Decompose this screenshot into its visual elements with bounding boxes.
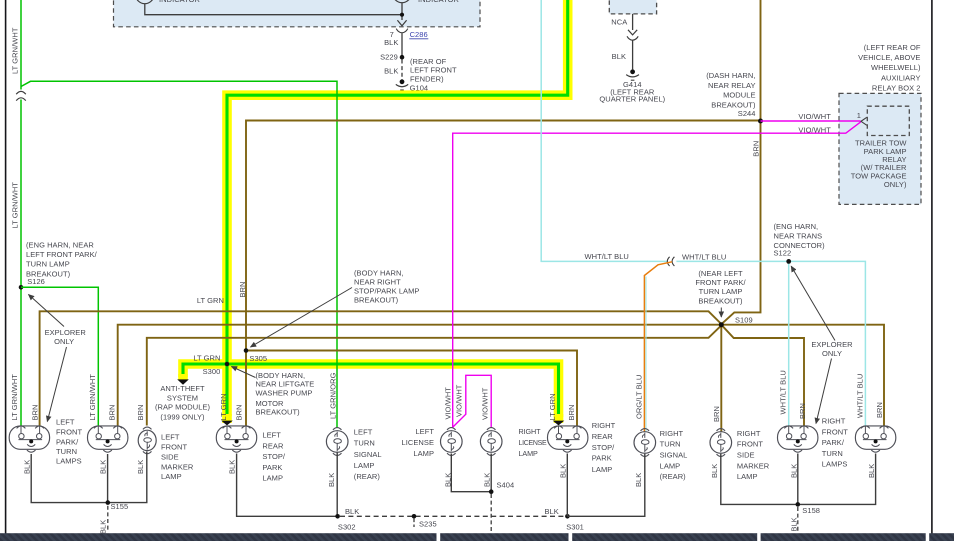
svg-text:BRN: BRN (712, 406, 721, 422)
svg-text:BLK: BLK (136, 460, 145, 474)
splice S301 (565, 514, 584, 531)
svg-text:S109: S109 (735, 315, 753, 324)
wire BLK S155 stub (dashed) (107, 506, 109, 532)
svg-text:WHT/LT BLU: WHT/LT BLU (856, 374, 865, 418)
wire from NCA box (632, 14, 634, 30)
svg-text:EXPLORER: EXPLORER (45, 328, 87, 337)
wire break symbol on WHT/LT BLU (667, 257, 674, 266)
svg-text:LT GRN/WHT: LT GRN/WHT (10, 374, 19, 421)
junction in cluster (400, 13, 404, 17)
svg-text:(LEFT REAR OF: (LEFT REAR OF (864, 43, 921, 52)
splice S305 (244, 348, 267, 363)
svg-text:LAMP: LAMP (519, 449, 538, 458)
svg-text:RIGHT: RIGHT (660, 429, 684, 438)
wire BLK right front lamps to S158 (721, 454, 876, 505)
svg-text:LEFT: LEFT (161, 433, 180, 442)
svg-text:BRN: BRN (238, 282, 247, 298)
svg-text:BLK: BLK (790, 464, 799, 478)
svg-text:VIO/WHT: VIO/WHT (443, 387, 452, 420)
svg-text:SIGNAL: SIGNAL (354, 450, 382, 459)
wire LT GRN/WHT branch to 2nd front park lamp (21, 287, 98, 425)
svg-text:BRN: BRN (752, 141, 761, 157)
lamp left front park/turn 1 (9, 426, 49, 452)
svg-text:(DASH HARN,: (DASH HARN, (706, 71, 755, 80)
splice S155 (106, 500, 129, 511)
svg-text:S158: S158 (802, 506, 820, 515)
svg-text:LAMP: LAMP (660, 461, 681, 470)
svg-text:S300: S300 (203, 367, 221, 376)
svg-text:ORG/LT BLU: ORG/LT BLU (635, 375, 644, 419)
splice S404 (489, 481, 514, 495)
wire BLK S158 stub (dashed) (797, 507, 799, 532)
wire LT GRN/WHT left trunk (20, 0, 22, 426)
splice S122 (786, 259, 791, 264)
svg-text:LAMP: LAMP (354, 461, 375, 470)
lamp left license (441, 428, 463, 456)
wire BLK to G414 (632, 40, 634, 69)
wire ORG/LT BLU tap to right turn signal (644, 262, 672, 432)
wire BLK license lamps to S404 (451, 454, 491, 492)
svg-text:(NEAR LEFT: (NEAR LEFT (698, 269, 743, 278)
svg-text:TURN LAMP: TURN LAMP (699, 287, 743, 296)
svg-text:S302: S302 (338, 522, 356, 531)
wire BLK rear lamps to S302 (237, 453, 338, 517)
svg-text:BLK: BLK (345, 507, 359, 516)
indicator lamp 1 (in cluster) (136, 0, 201, 4)
wire BLK C286 to S229 (401, 33, 403, 55)
pointer arrow to S305 (251, 288, 353, 348)
svg-text:S126: S126 (27, 277, 45, 286)
svg-text:S122: S122 (774, 249, 792, 258)
svg-text:(BODY HARN,: (BODY HARN, (354, 268, 404, 277)
svg-text:PARK: PARK (262, 463, 282, 472)
svg-text:RIGHT: RIGHT (519, 427, 542, 436)
lamp left rear stop/park (216, 426, 256, 452)
svg-text:AUXILIARY: AUXILIARY (881, 73, 921, 82)
relay pin 1 terminal (857, 111, 867, 125)
svg-text:LICENSE: LICENSE (402, 438, 434, 447)
ground G414 (626, 69, 639, 80)
svg-text:FRONT PARK/: FRONT PARK/ (695, 278, 746, 287)
svg-text:TURN: TURN (660, 440, 681, 449)
svg-text:BREAKOUT): BREAKOUT) (698, 296, 743, 305)
svg-text:BLK: BLK (384, 38, 398, 47)
NCA module box (dashed, cut off at top) (609, 0, 656, 14)
svg-text:FRONT: FRONT (737, 440, 763, 449)
svg-text:S404: S404 (497, 481, 515, 490)
svg-text:TURN: TURN (822, 449, 843, 458)
splice S229 (380, 53, 404, 62)
svg-text:RIGHT: RIGHT (822, 417, 846, 426)
lamp left front park/turn 2 (88, 426, 128, 452)
wire BRN S305 to right rear stop/park lamp (246, 351, 577, 426)
wire LT GRN branch to top horizontal run (21, 81, 337, 427)
svg-text:BRN: BRN (235, 405, 244, 421)
left page border (5, 0, 7, 541)
svg-text:ONLY: ONLY (54, 337, 74, 346)
svg-text:QUARTER PANEL): QUARTER PANEL) (599, 95, 665, 104)
wire cluster internal bus (145, 3, 402, 20)
svg-text:SIDE: SIDE (161, 453, 179, 462)
lamp left turn signal rear (326, 428, 348, 456)
svg-text:BLK: BLK (227, 460, 236, 474)
svg-text:LAMP: LAMP (737, 472, 758, 481)
svg-text:WHT/LT BLU: WHT/LT BLU (585, 252, 629, 261)
pointer arrow to S300 (232, 367, 256, 378)
svg-text:C286: C286 (410, 30, 428, 39)
svg-text:PARK/: PARK/ (56, 438, 79, 447)
splice S302 (335, 514, 355, 531)
svg-text:ONLY: ONLY (822, 349, 842, 358)
svg-text:LAMPS: LAMPS (822, 460, 848, 469)
bottom legend bar (0, 533, 437, 541)
svg-text:LT GRN: LT GRN (219, 393, 228, 420)
svg-text:PARK: PARK (592, 454, 612, 463)
svg-text:NEAR RELAY: NEAR RELAY (708, 81, 755, 90)
svg-text:LT GRN: LT GRN (193, 353, 220, 362)
svg-text:MODULE: MODULE (723, 91, 755, 100)
svg-text:S305: S305 (249, 354, 267, 363)
svg-text:BRN: BRN (875, 402, 884, 418)
pointer arrow to S109 (720, 308, 722, 318)
lamp right front park/turn 2 (855, 426, 895, 452)
svg-text:SIGNAL: SIGNAL (660, 451, 688, 460)
svg-text:INDICATOR: INDICATOR (159, 0, 201, 4)
svg-text:STOP/: STOP/ (262, 452, 285, 461)
svg-text:FENDER): FENDER) (410, 75, 444, 84)
svg-text:STOP/PARK LAMP: STOP/PARK LAMP (354, 287, 419, 296)
svg-text:BLK: BLK (634, 473, 643, 487)
svg-text:BLK: BLK (612, 52, 626, 61)
splice S300 (203, 362, 230, 376)
svg-text:LEFT: LEFT (354, 428, 373, 437)
indicator lamp 2 (in cluster) (393, 0, 460, 4)
svg-text:BRN: BRN (567, 405, 576, 421)
pointer arrow explorer-only to left front lamp (47, 347, 66, 422)
svg-text:LT GRN/WHT: LT GRN/WHT (10, 27, 19, 74)
svg-text:BLK: BLK (384, 66, 398, 75)
svg-text:WHT/LT BLU: WHT/LT BLU (779, 370, 788, 414)
svg-text:LAMPS: LAMPS (56, 457, 82, 466)
arrow to anti-theft system (177, 379, 189, 384)
svg-text:LT GRN: LT GRN (548, 393, 557, 420)
arrow into connector (628, 30, 637, 35)
svg-text:NEAR LIFTGATE: NEAR LIFTGATE (256, 380, 315, 389)
lamp right turn signal rear (634, 429, 656, 457)
svg-text:REAR: REAR (262, 441, 284, 450)
svg-text:TURN: TURN (56, 447, 77, 456)
svg-text:BLK: BLK (443, 473, 452, 487)
pointer arrow explorer-only to S122 (791, 266, 835, 340)
wire BRN S109 down to right side marker (720, 325, 722, 432)
svg-text:S229: S229 (380, 53, 398, 62)
svg-text:BREAKOUT): BREAKOUT) (354, 296, 399, 305)
svg-text:ONLY): ONLY) (884, 180, 907, 189)
svg-text:NCA: NCA (611, 18, 627, 27)
svg-text:BLK: BLK (327, 473, 336, 487)
svg-text:(1999 ONLY): (1999 ONLY) (160, 412, 205, 421)
svg-text:(ENG HARN,: (ENG HARN, (774, 222, 819, 231)
lamp right rear stop/park (548, 426, 588, 452)
svg-text:ANTI-THEFT: ANTI-THEFT (160, 384, 205, 393)
splice S158 (796, 502, 821, 515)
svg-text:INDICATOR: INDICATOR (418, 0, 460, 4)
svg-text:BLK: BLK (545, 507, 559, 516)
wire VIO/WHT jumper left license to right license lamp (453, 375, 492, 427)
wire VIO/WHT S244 to trailer relay (761, 120, 861, 122)
svg-text:LT GRN/WHT: LT GRN/WHT (88, 374, 97, 421)
svg-text:BLK: BLK (98, 460, 107, 474)
svg-text:VIO/WHT: VIO/WHT (798, 126, 831, 135)
wire BLK bus S302-S301 (dashed) (340, 515, 567, 517)
wire WHT/LT BLU right section (676, 261, 865, 425)
svg-text:(REAR): (REAR) (660, 472, 687, 481)
wire LT GRN highlighted trunk (yellow overlay) (183, 0, 568, 417)
trailer tow park lamp relay pin box (867, 106, 909, 135)
svg-text:REAR: REAR (592, 432, 614, 441)
svg-text:WHEELWELL): WHEELWELL) (871, 63, 921, 72)
svg-text:MARKER: MARKER (161, 462, 194, 471)
lamp left front side marker (138, 427, 156, 454)
svg-text:LEFT: LEFT (415, 427, 434, 436)
wire WHT/LT BLU trunk (541, 0, 667, 261)
svg-text:FRONT: FRONT (56, 428, 82, 437)
svg-text:BRN: BRN (798, 403, 807, 419)
svg-text:BRN: BRN (108, 405, 117, 421)
wire BRN S244 trunk to S109 (722, 0, 761, 324)
svg-text:BLK: BLK (867, 464, 876, 478)
svg-text:SYSTEM: SYSTEM (167, 393, 198, 402)
wire BLK left lamps to S155 (31, 452, 147, 503)
svg-text:LAMP: LAMP (592, 465, 613, 474)
svg-text:BREAKOUT): BREAKOUT) (26, 269, 71, 278)
wire BLK S229 to G104 (dashed) (401, 60, 403, 80)
connector at G414 lead (627, 36, 638, 40)
arrow out of cluster box (397, 20, 406, 26)
svg-text:NEAR RIGHT: NEAR RIGHT (354, 277, 401, 286)
lamp right license (480, 428, 502, 456)
wire BLK right rear lamps to S301 (567, 454, 645, 517)
svg-text:1: 1 (857, 111, 861, 120)
svg-text:BRN: BRN (30, 405, 39, 421)
svg-text:LEFT FRONT: LEFT FRONT (410, 65, 457, 74)
arrow into right rear stop/park lamp (553, 421, 565, 426)
svg-text:BREAKOUT): BREAKOUT) (256, 408, 301, 417)
svg-text:LT GRN/ORG: LT GRN/ORG (329, 372, 338, 419)
svg-text:VEHICLE, ABOVE: VEHICLE, ABOVE (858, 53, 920, 62)
wire break symbol on LT GRN/WHT (16, 90, 26, 101)
svg-text:NEAR TRANS: NEAR TRANS (774, 232, 823, 241)
svg-text:RIGHT: RIGHT (592, 421, 616, 430)
splice S126 (19, 277, 45, 289)
svg-text:RIGHT: RIGHT (737, 429, 761, 438)
svg-text:TURN LAMP: TURN LAMP (26, 260, 70, 269)
wire BRN lamp3 to S109 (147, 325, 722, 425)
instrument cluster module box (dashed, cut off at top) (114, 0, 481, 27)
svg-text:BLK: BLK (710, 464, 719, 478)
svg-text:WASHER PUMP: WASHER PUMP (256, 388, 313, 397)
pointer arrow explorer-only to right front lamp (816, 359, 832, 424)
arrow into left rear stop/park lamp (221, 421, 233, 426)
right page border (931, 0, 933, 541)
svg-text:LT GRN: LT GRN (197, 296, 224, 305)
svg-text:FRONT: FRONT (161, 443, 187, 452)
ground G104 (396, 79, 408, 90)
svg-text:VIO/WHT: VIO/WHT (480, 387, 489, 420)
svg-text:LAMP: LAMP (262, 474, 283, 483)
svg-text:(RAP MODULE): (RAP MODULE) (155, 403, 211, 412)
svg-text:LAMP: LAMP (413, 449, 434, 458)
svg-text:MARKER: MARKER (737, 461, 770, 470)
svg-text:S301: S301 (566, 522, 584, 531)
svg-text:BLK: BLK (22, 460, 31, 474)
svg-text:SIDE: SIDE (737, 451, 755, 460)
svg-text:BLK: BLK (482, 473, 491, 487)
svg-text:LEFT FRONT PARK/: LEFT FRONT PARK/ (26, 250, 98, 259)
svg-text:LEFT: LEFT (56, 417, 75, 426)
svg-text:VIO/WHT: VIO/WHT (798, 112, 831, 121)
svg-text:BLK: BLK (559, 464, 568, 478)
svg-text:RELAY BOX 2: RELAY BOX 2 (872, 83, 921, 92)
svg-text:S155: S155 (111, 502, 129, 511)
wire VIO/WHT license lamp feed to trailer relay (453, 122, 861, 428)
wire BLK S404 stub (dashed) (490, 494, 492, 532)
lamp right front side marker (710, 429, 732, 457)
splice S244 (758, 119, 763, 124)
svg-text:S244: S244 (738, 109, 756, 118)
connector C286 pin 7 (384, 29, 428, 48)
svg-text:BRN: BRN (136, 405, 145, 421)
wire WHT/LT BLU S122 branch down (788, 261, 790, 425)
svg-text:TURN: TURN (354, 439, 375, 448)
pointer arrow to S126 (29, 295, 65, 327)
svg-text:PARK/: PARK/ (822, 438, 845, 447)
svg-text:LEFT: LEFT (262, 431, 281, 440)
svg-text:STOP/: STOP/ (592, 443, 615, 452)
wire BRN lamp1 to S109 (40, 311, 722, 425)
svg-text:FRONT: FRONT (822, 427, 848, 436)
wire BRN upper branch to S244 (246, 121, 761, 426)
svg-text:VIO/WHT: VIO/WHT (455, 384, 464, 417)
wire BRN S109 to right front lamp1 (721, 325, 804, 426)
splice S109 (719, 315, 753, 327)
lamp right front park/turn 1 (778, 426, 818, 452)
splice S235 (412, 514, 437, 529)
svg-text:LAMP: LAMP (161, 472, 182, 481)
svg-text:BLK: BLK (98, 520, 107, 534)
svg-text:(REAR): (REAR) (354, 472, 381, 481)
auxiliary relay box 2 (dashed) (839, 93, 921, 204)
svg-text:EXPLORER: EXPLORER (811, 340, 853, 349)
svg-text:BLK: BLK (790, 517, 799, 531)
svg-text:S235: S235 (419, 520, 437, 529)
svg-text:WHT/LT BLU: WHT/LT BLU (682, 252, 726, 261)
svg-text:LT GRN/WHT: LT GRN/WHT (10, 182, 19, 229)
svg-text:MOTOR: MOTOR (256, 399, 285, 408)
svg-text:LICENSE: LICENSE (519, 440, 547, 447)
svg-text:(ENG HARN, NEAR: (ENG HARN, NEAR (26, 240, 94, 249)
yellow pads at arrow tips (178, 374, 188, 381)
wire BRN lamp2 through S109 to right front lamp2 (118, 325, 884, 426)
